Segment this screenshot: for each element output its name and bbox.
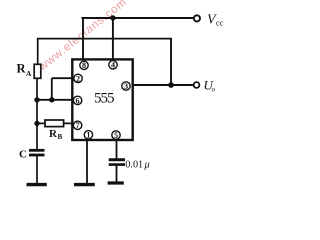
wire: RB to pin 7 xyxy=(37,122,73,124)
wire: bypass cap to ground xyxy=(116,166,118,182)
ground (C) xyxy=(27,183,47,186)
pin 5 xyxy=(112,131,120,140)
svg-text:5: 5 xyxy=(114,131,118,140)
ground (pin5 cap) xyxy=(108,181,124,184)
resistor RB xyxy=(45,120,64,127)
wire: output from pin 3 to Uo xyxy=(132,84,194,86)
wire: feedback rail from RA top to output node xyxy=(37,38,172,40)
svg-text:A: A xyxy=(26,69,32,78)
wire: pin2 stub and riser xyxy=(52,77,73,79)
capacitor 0.01u xyxy=(109,158,125,161)
svg-text:1: 1 xyxy=(86,131,90,140)
ground (pin1) xyxy=(74,183,95,186)
node: dot at pin2 riser / pin6 wire xyxy=(49,97,54,102)
watermark www.elecfans.com xyxy=(36,0,129,74)
node: dot at left vertical / pin6 wire xyxy=(34,97,39,102)
pin 3 xyxy=(122,82,130,91)
node: dot at left vertical / RB wire xyxy=(34,121,39,126)
svg-text:o: o xyxy=(212,86,216,94)
pin 7 xyxy=(73,121,81,130)
pin 6 xyxy=(73,96,81,105)
pin 1 xyxy=(84,131,92,140)
resistor RA xyxy=(34,64,41,78)
wire: pin1 to ground xyxy=(86,140,88,184)
svg-text:μ: μ xyxy=(144,160,150,171)
pin 4 xyxy=(109,61,117,70)
wire: pin5 down to bypass cap xyxy=(116,140,118,159)
svg-text:3: 3 xyxy=(124,82,128,91)
svg-text:7: 7 xyxy=(76,121,80,130)
node: junction dot output xyxy=(168,82,174,88)
wire: left vertical RA bottom to C xyxy=(36,78,38,150)
wire: top Vcc rail xyxy=(82,17,194,19)
svg-text:555: 555 xyxy=(94,90,115,106)
terminal Vcc xyxy=(194,15,200,21)
svg-text:R: R xyxy=(17,62,27,76)
svg-text:6: 6 xyxy=(76,96,80,105)
op-amp U1: 555 timer box xyxy=(72,59,132,140)
wire: pin6 horizontal xyxy=(37,99,73,101)
svg-text:C: C xyxy=(19,149,27,161)
capacitor C xyxy=(29,149,45,152)
svg-text:cc: cc xyxy=(216,18,224,28)
wire: pin8 vertical to Vcc rail xyxy=(82,17,84,60)
wire: riser above RA xyxy=(37,39,39,65)
wire: pin4 vertical to Vcc rail xyxy=(112,18,114,60)
svg-text:2: 2 xyxy=(76,74,80,83)
pin 8 xyxy=(80,61,88,70)
pin 2 xyxy=(74,74,82,83)
wire: C bottom to ground xyxy=(36,156,38,184)
svg-text:0.01: 0.01 xyxy=(125,160,143,171)
terminal Uo xyxy=(194,82,200,88)
wire: vertical from feedback rail down to output wire xyxy=(170,39,172,85)
svg-text:B: B xyxy=(58,133,63,141)
svg-text:4: 4 xyxy=(111,61,115,70)
node: junction dot on Vcc rail above pin 4 xyxy=(110,15,115,20)
svg-text:8: 8 xyxy=(82,61,86,70)
